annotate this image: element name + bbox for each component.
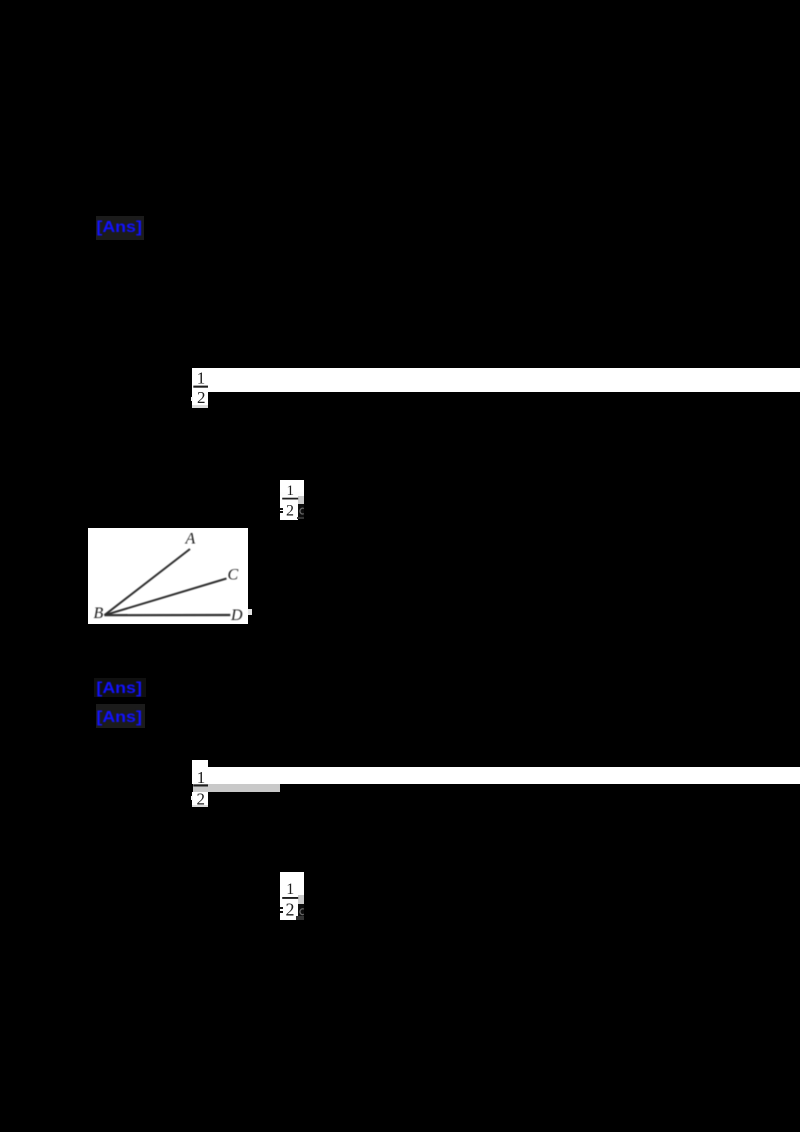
fraction glyphs [276,476,310,524]
diagram white box [88,528,248,625]
equation strip 3: wide white bar [208,767,800,784]
equation strip 1: gray footer [192,405,208,408]
svg-text:A: A [185,530,196,547]
equation strip 3: denominator box [192,792,208,805]
equation strip 3: numerator mini box [192,760,208,767]
faint c glyph [298,504,305,517]
white body top [280,872,304,895]
fraction 1/2 glyphs (strip 1) [188,366,214,408]
dark right column [298,904,304,916]
svg-text:2: 2 [286,503,294,520]
diagram right nub [248,609,252,615]
white body lower [280,492,298,520]
link 3 blue text [94,704,148,730]
bottom dark strip [297,517,305,520]
angle diagram rays and labels [88,528,248,625]
white body top [280,480,304,493]
ray B to D [104,613,230,615]
faint c glyph [298,905,305,918]
link 2 blue text [94,675,148,701]
svg-text:D: D [230,607,243,624]
equation strip 3: gray footer [192,805,208,807]
white over line row [280,492,304,496]
equation strip 1: white = nub [191,397,193,402]
link 3 dark box [96,704,145,729]
white body lower [280,895,298,920]
equation strip 3: white = nub [191,796,193,800]
ray B to C [104,578,226,615]
svg-text:B: B [94,605,104,622]
svg-text:1: 1 [197,368,206,387]
dark right column [298,504,304,517]
svg-text:1: 1 [197,768,206,787]
svg-text:2: 2 [196,789,205,807]
fraction 1/2 glyphs (strip 3) [188,765,214,807]
fraction image 2 (1/2 with angle glyph) [276,476,310,524]
ray B to A [104,549,190,615]
svg-text:2: 2 [286,899,295,919]
link 1 blue text [94,214,148,240]
equation strip 3: gray selection bar [193,784,280,792]
fraction image 4 (1/2 with angle glyph) [276,868,310,922]
equation strip 1: white bar [192,368,800,393]
gray corner patch [298,895,304,904]
svg-text:[Ans]: [Ans] [96,709,142,726]
link 1 dark box [96,216,144,240]
svg-text:1: 1 [286,881,294,898]
fraction glyphs [276,868,310,922]
svg-text:[Ans]: [Ans] [96,680,142,697]
svg-text:2: 2 [197,388,206,407]
gray corner patch [298,496,304,504]
black = notch [280,907,283,909]
equation strip 1: denominator box [192,392,208,405]
svg-text:1: 1 [287,483,295,499]
black = notch [280,508,283,510]
svg-text:[Ans]: [Ans] [96,219,142,236]
link 2 faint box [94,678,146,697]
svg-text:C: C [228,566,239,583]
bottom dark strip [296,916,304,920]
